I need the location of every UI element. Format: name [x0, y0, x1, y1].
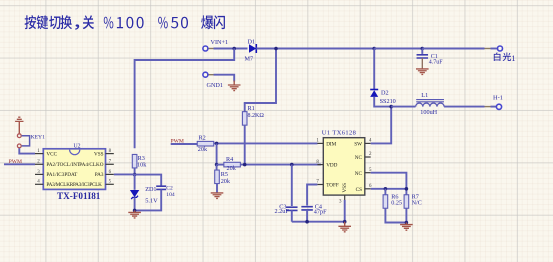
svg-text:U1 TX6128: U1 TX6128 [322, 129, 356, 136]
wire KEY1 to pin 1 [19, 148, 35, 153]
svg-text:D1: D1 [248, 39, 256, 46]
switch KEY1 [17, 134, 45, 148]
capacitor C3 2.2uF [275, 203, 298, 215]
junction C4/bottom rail [305, 220, 309, 224]
junction R3/PA3 [133, 173, 137, 177]
wire C1 branch to lamp terminal [422, 48, 484, 50]
terminal VIN+1 [203, 39, 228, 51]
wire CS pin to R7 branch [371, 188, 407, 190]
inductor L1 100uH [416, 92, 444, 116]
svg-text:L1: L1 [421, 92, 428, 99]
wire C2 to bottom rail [135, 190, 162, 211]
svg-text:0.25: 0.25 [391, 200, 402, 207]
svg-text:ZD1: ZD1 [145, 186, 156, 193]
ground under ZD1 [128, 210, 141, 218]
ground under U1 [338, 222, 351, 232]
wire R4 to VDD line [240, 164, 291, 166]
wire junction to R4 [217, 164, 225, 166]
svg-text:2: 2 [369, 152, 372, 157]
svg-text:PA3: PA3 [95, 172, 104, 178]
wire D1 cathode to D2 branch [256, 48, 374, 50]
wire SW pin to L1 node [371, 107, 392, 144]
diode D2 SS210 [370, 89, 396, 105]
bottom rail wire [292, 221, 345, 223]
junction at C3 branch [290, 163, 294, 167]
svg-text:SS210: SS210 [380, 98, 396, 105]
svg-text:C2: C2 [166, 185, 173, 191]
junction ZD1/C2 ground [133, 209, 137, 213]
junction R1/R4 [243, 163, 247, 167]
wire pin 3 to bottom rail [344, 200, 346, 222]
port pin stub GND1 [208, 74, 214, 76]
svg-text:PA4/CLKO: PA4/CLKO [79, 162, 104, 168]
svg-text:DIM: DIM [326, 142, 336, 148]
junction SW/D2/L1 [389, 105, 393, 109]
wire R2 junction down to R4 [216, 143, 218, 164]
port pin stub H-1 [485, 106, 491, 108]
wire D2 to L1 node [374, 97, 391, 107]
capacitor C1 4.7uF [417, 49, 444, 66]
svg-text:H-1: H-1 [493, 94, 503, 101]
wire VDD line to pin 8 [292, 164, 321, 166]
junction at R2 output [215, 142, 219, 146]
svg-text:U2: U2 [74, 144, 81, 150]
wire R5 to ground [216, 183, 218, 192]
svg-text:20k: 20k [198, 146, 208, 153]
wire pin 6 to R3 junction [114, 173, 135, 175]
resistor R3 10k [132, 154, 147, 168]
wire CS junction to R6 [384, 189, 386, 195]
svg-text:20k: 20k [221, 178, 231, 185]
svg-text:KEY1: KEY1 [31, 135, 45, 141]
wire stub to lamp circle [491, 48, 498, 50]
junction pin3/bottom rail [343, 220, 347, 224]
svg-text:GND1: GND1 [207, 82, 224, 89]
svg-text:PA1/IC3PDAT: PA1/IC3PDAT [46, 172, 78, 178]
resistor R2 20k [197, 134, 214, 153]
IC U1 TX6128 [316, 129, 372, 204]
wire R7 to ground rail [405, 208, 407, 222]
IC U2 TX-F01I81 [35, 144, 114, 201]
svg-text:D2: D2 [381, 89, 389, 96]
svg-text:M7: M7 [245, 55, 254, 62]
svg-text:8.2KΩ: 8.2KΩ [248, 113, 265, 119]
wire top rail down to D2 [373, 49, 375, 90]
junction CS/R6 [384, 187, 388, 191]
junction at D2 branch [372, 47, 376, 51]
schematic title note [25, 15, 225, 30]
junction after D1 [274, 47, 278, 51]
terminal 白光1 [494, 46, 516, 63]
wire C3 to bottom rail [291, 210, 293, 221]
svg-text:4.7uF: 4.7uF [429, 60, 444, 66]
port pin stub VIN+1 [208, 48, 214, 50]
wire VDD junction down to C3 [291, 165, 293, 206]
svg-text:VIN+1: VIN+1 [211, 39, 229, 46]
wire VIN junction down-left to R3 [135, 49, 235, 149]
svg-text:N/C: N/C [412, 200, 422, 207]
wire TOFF to C4 [307, 185, 317, 206]
junction at R4/R5 [215, 163, 219, 167]
ground under GND1 [228, 81, 241, 91]
svg-text:VSS: VSS [94, 151, 104, 157]
svg-text:CS: CS [356, 187, 362, 193]
wire R2 to DIM pin [214, 142, 318, 144]
wire R6 to ground rail [385, 208, 406, 222]
svg-text:NC: NC [355, 155, 363, 161]
svg-text:PA2/TOCL/INT: PA2/TOCL/INT [46, 162, 81, 168]
svg-text:R4: R4 [226, 156, 233, 163]
wire top rail VIN to lamp [214, 48, 248, 50]
wire R3 bottom to junction [134, 168, 136, 175]
svg-text:VCC: VCC [46, 151, 57, 157]
svg-text:100uH: 100uH [420, 109, 437, 116]
junction ground rail [405, 221, 409, 225]
svg-text:NC: NC [355, 171, 363, 177]
resistor R6 0.25 [383, 194, 402, 209]
wire PWM to pin 2 [4, 163, 35, 165]
wire R1 bottom to VDD line [244, 125, 246, 165]
junction at C1 branch [421, 47, 425, 51]
ground under R5 [211, 193, 224, 199]
wire NC pin 5 to R7 [371, 173, 407, 195]
wire into R1 top [244, 103, 246, 112]
junction at VIN branch [232, 47, 236, 51]
svg-text:20k: 20k [227, 165, 237, 172]
capacitor C4 47pF [301, 203, 327, 215]
capacitor C2 104 [156, 185, 175, 197]
wire C4 to bottom rail [306, 210, 308, 222]
svg-text:104: 104 [166, 192, 175, 198]
resistor R7 N/C [404, 194, 422, 209]
svg-text:TX-F01I81: TX-F01I81 [57, 191, 101, 201]
zener diode ZD1 5.1V [130, 175, 158, 205]
ground under C1 [416, 58, 429, 74]
resistor R1 8.2KOhm [242, 105, 264, 125]
wire D1 output down to R1 [245, 49, 276, 104]
svg-text:TOFF: TOFF [326, 183, 339, 189]
svg-text:47pF: 47pF [314, 208, 327, 215]
resistor R5 20k [215, 165, 231, 185]
junction CS/R7 [405, 187, 409, 191]
terminal H-1 [493, 94, 503, 109]
wire junction to C2 branch [135, 175, 162, 186]
wire GND1 to ground [214, 75, 235, 82]
svg-text:VSS: VSS [342, 183, 348, 193]
wire PWM to R2 [171, 143, 198, 145]
svg-text:1: 1 [511, 54, 515, 63]
wire stub to H-1 circle [491, 106, 498, 108]
svg-text:SW: SW [354, 142, 362, 148]
svg-text:5.1V: 5.1V [145, 197, 158, 204]
svg-text:VDD: VDD [326, 163, 337, 169]
svg-text:3: 3 [339, 199, 342, 204]
svg-text:R1: R1 [248, 105, 255, 112]
wire node to L1 [391, 106, 415, 108]
svg-text:10k: 10k [137, 162, 147, 169]
power flag at KEY1 [15, 117, 23, 133]
wire L1 to H-1 terminal [444, 106, 484, 108]
wire ZD1 to bottom rail [134, 197, 136, 210]
svg-text:2.2uF: 2.2uF [275, 208, 290, 215]
port pin stub lamp [485, 48, 491, 50]
wire to C1 branch [374, 48, 422, 50]
svg-text:R2: R2 [199, 134, 206, 141]
terminal GND1 [203, 72, 223, 89]
resistor R4 20k [224, 156, 241, 172]
ground under R6 R7 [400, 223, 413, 231]
svg-text:PA3/MCLKRPA3/IC3PCLK: PA3/MCLKRPA3/IC3PCLK [46, 182, 102, 188]
diode D1 M7 [245, 39, 257, 63]
